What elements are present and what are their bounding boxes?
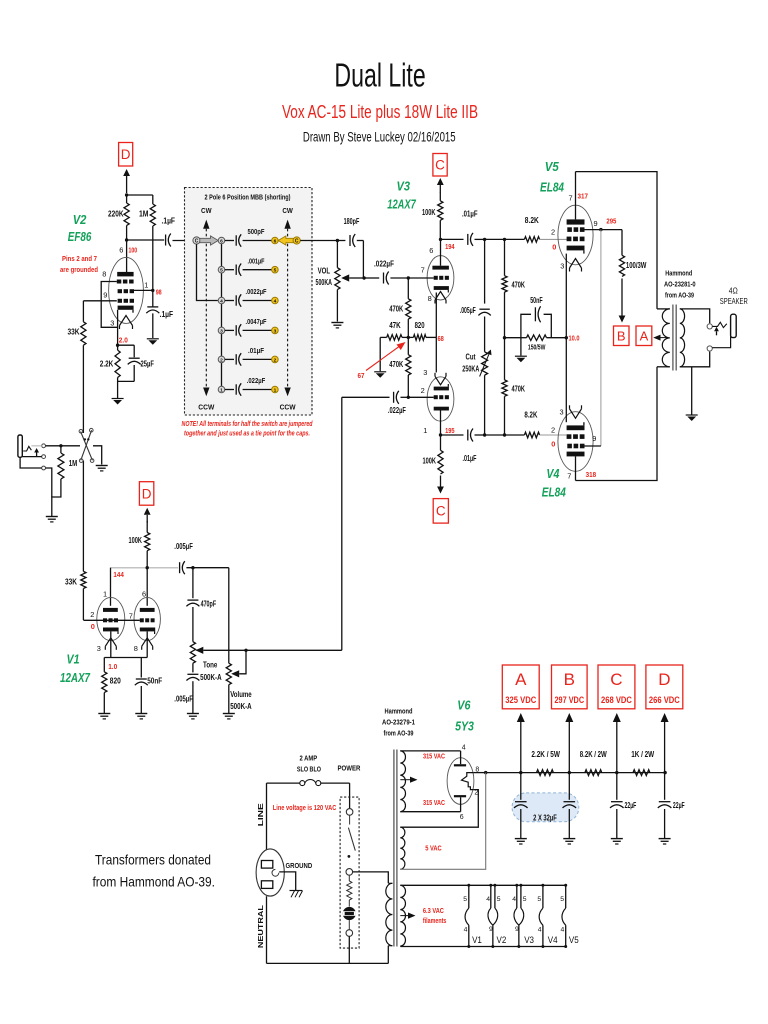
svg-text:5Y3: 5Y3 bbox=[455, 720, 474, 734]
wire HV top lead bbox=[400, 750, 460, 752]
svg-text:4: 4 bbox=[462, 745, 466, 752]
node B voltage box 297 VDC bbox=[552, 665, 588, 709]
wire V3b plate down bbox=[440, 411, 442, 436]
svg-text:V5: V5 bbox=[545, 160, 560, 174]
capacitor 32uF B bbox=[568, 773, 570, 800]
arrow to C box bbox=[439, 185, 441, 193]
svg-text:.0022µF: .0022µF bbox=[246, 287, 267, 296]
svg-text:68: 68 bbox=[438, 334, 444, 343]
svg-text:317: 317 bbox=[578, 192, 589, 201]
wire pin9 grid stub bbox=[83, 300, 116, 302]
wire plate node to coupling cap bbox=[127, 239, 165, 241]
svg-text:NEUTRAL: NEUTRAL bbox=[256, 904, 265, 948]
potentiometer VOL 500KA bbox=[336, 241, 338, 268]
ground 820 bbox=[98, 713, 110, 715]
capacitor 50nF cathode bypass bbox=[521, 314, 531, 337]
V2 grid3 row bbox=[117, 280, 122, 284]
wire 180pF right leg bbox=[362, 241, 364, 279]
svg-text:SLO BLO: SLO BLO bbox=[297, 765, 321, 774]
resistor 470K lower grid leak bbox=[504, 338, 506, 380]
svg-text:CCW: CCW bbox=[198, 405, 214, 412]
svg-text:C: C bbox=[295, 239, 299, 245]
svg-text:2 AMP: 2 AMP bbox=[300, 753, 318, 762]
svg-text:9: 9 bbox=[515, 926, 519, 933]
wire 47K to ground bbox=[380, 336, 387, 338]
svg-text:SPEAKER: SPEAKER bbox=[720, 297, 748, 306]
svg-text:5: 5 bbox=[523, 896, 527, 903]
wire jack sleeve bbox=[20, 457, 42, 468]
svg-text:2: 2 bbox=[551, 228, 555, 237]
svg-text:500K-A: 500K-A bbox=[200, 673, 222, 682]
resistor 470K upper divider bbox=[407, 278, 409, 299]
wire volume bottom bbox=[228, 685, 230, 713]
svg-text:144: 144 bbox=[113, 570, 124, 579]
wire bias node bbox=[505, 337, 521, 339]
capacitor .005uF tone bottom bbox=[192, 663, 194, 672]
svg-text:V3: V3 bbox=[524, 935, 534, 945]
V5 heater bbox=[570, 259, 582, 269]
svg-text:470K: 470K bbox=[389, 359, 404, 369]
capacitor .01uF bottom coupling bbox=[441, 434, 464, 436]
tube V1b envelope bbox=[134, 597, 160, 640]
svg-text:.1µF: .1µF bbox=[162, 217, 176, 226]
svg-text:5: 5 bbox=[537, 896, 541, 903]
svg-text:50nF: 50nF bbox=[530, 296, 543, 305]
jack switch cross contacts bbox=[81, 432, 93, 461]
V4 heater inverted bbox=[570, 409, 582, 419]
svg-text:2 Pole 6 Position MBB (shortin: 2 Pole 6 Position MBB (shorting) bbox=[205, 195, 291, 202]
switch pole A terminal bus bbox=[221, 244, 223, 390]
svg-text:9: 9 bbox=[594, 219, 598, 228]
svg-text:0: 0 bbox=[91, 622, 95, 631]
svg-text:295: 295 bbox=[606, 217, 616, 226]
svg-text:220K: 220K bbox=[108, 209, 124, 219]
svg-text:98: 98 bbox=[156, 288, 162, 297]
V3b plate bar bbox=[434, 407, 449, 411]
wire cathode to ground bbox=[117, 378, 119, 399]
rheostat Cut 250KA bbox=[482, 352, 488, 375]
svg-text:8: 8 bbox=[134, 644, 138, 653]
OT secondary top lead bbox=[680, 309, 710, 323]
svg-text:1.0: 1.0 bbox=[108, 662, 117, 671]
node B supply bbox=[614, 326, 630, 346]
wire cathode bus V1 bbox=[104, 657, 147, 659]
wire 5V bottom lead to B+ node bbox=[400, 773, 485, 870]
thermistor zigzag bbox=[348, 875, 350, 881]
svg-text:.01µF: .01µF bbox=[463, 454, 477, 463]
svg-text:6: 6 bbox=[142, 590, 146, 599]
capacitor .022uF to V3b grid bbox=[342, 396, 390, 398]
wire V1a plate lead bbox=[110, 568, 112, 606]
svg-text:315 VAC: 315 VAC bbox=[423, 752, 445, 761]
svg-text:12AX7: 12AX7 bbox=[60, 671, 91, 685]
svg-text:22µF: 22µF bbox=[625, 801, 637, 810]
input jack tip contact bbox=[23, 446, 31, 451]
svg-text:EL84: EL84 bbox=[542, 486, 566, 500]
wire plate bottom lead bbox=[460, 797, 462, 811]
ground cap D bbox=[659, 838, 671, 840]
arrow to D box bbox=[664, 721, 666, 723]
wire V1b cathode lead bbox=[146, 631, 148, 657]
svg-text:.1µF: .1µF bbox=[160, 310, 174, 319]
wire switch to ground right bbox=[93, 446, 102, 465]
svg-text:A: A bbox=[640, 328, 649, 343]
svg-text:5: 5 bbox=[274, 268, 277, 274]
svg-text:1: 1 bbox=[423, 426, 427, 435]
junction dots B+ rail bbox=[484, 771, 487, 774]
svg-text:.022µF: .022µF bbox=[388, 406, 406, 415]
OT core bbox=[672, 305, 674, 371]
V6 plate bar top bbox=[454, 764, 466, 766]
wire V4 screen stub bbox=[585, 445, 601, 447]
svg-text:D: D bbox=[658, 670, 670, 689]
svg-text:.01µF: .01µF bbox=[462, 210, 478, 219]
OT primary winding bbox=[657, 308, 670, 310]
tube V5 envelope bbox=[558, 205, 593, 265]
V4 grid row bbox=[567, 434, 572, 439]
svg-text:7: 7 bbox=[567, 472, 571, 481]
wire mains top bbox=[267, 782, 300, 784]
switch contact 2 bbox=[346, 869, 353, 876]
svg-text:from AO-39: from AO-39 bbox=[384, 729, 414, 738]
svg-text:are grounded: are grounded bbox=[60, 265, 98, 274]
resistor 820 cathode V1 bbox=[103, 658, 105, 672]
wire V1a cathode lead bbox=[110, 631, 112, 657]
wire node to 1M bbox=[127, 194, 153, 196]
V6 plate bar bottom bbox=[454, 795, 466, 797]
node C voltage box 268 VDC bbox=[598, 665, 635, 709]
svg-text:3: 3 bbox=[560, 408, 564, 417]
svg-text:C: C bbox=[436, 504, 446, 519]
wire tone bus riser bbox=[341, 397, 343, 650]
svg-text:Pins 2 and 7: Pins 2 and 7 bbox=[62, 254, 97, 263]
resistor 8.2K grid stopper V4 bbox=[524, 432, 539, 438]
PT core bbox=[393, 750, 395, 947]
CW arrow right bbox=[284, 220, 290, 229]
V2 grid2 row bbox=[118, 289, 122, 293]
svg-text:Vox AC-15 Lite plus 18W Lite I: Vox AC-15 Lite plus 18W Lite IIB bbox=[282, 101, 478, 122]
svg-text:25µF: 25µF bbox=[141, 359, 155, 369]
potentiometer Volume 500K-A bbox=[226, 663, 231, 685]
svg-text:6: 6 bbox=[274, 239, 277, 245]
switch pole A wiper arrow bbox=[200, 236, 218, 245]
svg-text:V2: V2 bbox=[497, 935, 507, 945]
wire V1b plate lead bbox=[146, 568, 148, 606]
svg-text:2 X 32µF: 2 X 32µF bbox=[533, 814, 557, 823]
switch right terminal 5 (yellow) bbox=[272, 266, 279, 273]
svg-text:from Hammond AO-39.: from Hammond AO-39. bbox=[93, 875, 216, 890]
svg-text:Hammond: Hammond bbox=[385, 707, 413, 716]
node C supply V3 bbox=[433, 154, 447, 177]
svg-text:500KA: 500KA bbox=[316, 278, 333, 287]
resistor 220K plate load bbox=[126, 195, 128, 203]
V2 plate bar bbox=[117, 272, 133, 277]
svg-text:Volume: Volume bbox=[230, 690, 252, 699]
wire V2 cathode lead bbox=[117, 310, 119, 345]
svg-text:V3: V3 bbox=[397, 180, 411, 194]
wire plug ground bbox=[279, 872, 296, 891]
svg-text:9: 9 bbox=[489, 926, 493, 933]
wire shared cathode line bbox=[435, 293, 437, 338]
resistor 470K upper grid leak bbox=[504, 239, 506, 275]
svg-text:Tone: Tone bbox=[203, 661, 218, 670]
volume wiper arrow bbox=[231, 670, 239, 677]
svg-text:.022µF: .022µF bbox=[374, 260, 394, 269]
V1b grid row bbox=[140, 618, 144, 622]
svg-text:AO-23279-1: AO-23279-1 bbox=[382, 718, 415, 727]
V6 cathode bbox=[462, 773, 474, 790]
svg-text:from AO-39: from AO-39 bbox=[665, 291, 694, 300]
svg-text:2.2K: 2.2K bbox=[100, 359, 114, 369]
svg-text:3: 3 bbox=[220, 328, 223, 334]
svg-text:5: 5 bbox=[560, 896, 564, 903]
wire switch to bottom rail bbox=[348, 936, 350, 963]
svg-text:EF86: EF86 bbox=[68, 230, 92, 244]
switch lower terminal bbox=[348, 920, 350, 930]
svg-text:500pF: 500pF bbox=[248, 227, 265, 236]
capacitor .001µF switch row bbox=[225, 269, 234, 271]
wire pin1 to 1M bottom bbox=[134, 289, 153, 291]
svg-text:325 VDC: 325 VDC bbox=[505, 695, 536, 705]
wire D arrow bbox=[126, 176, 128, 193]
wire V2 plate node bbox=[125, 238, 128, 241]
capacitor 470pF treble bbox=[192, 568, 194, 599]
svg-text:470K: 470K bbox=[512, 280, 526, 290]
switch pole A common terminal C bbox=[193, 237, 200, 244]
svg-text:8: 8 bbox=[102, 270, 106, 279]
svg-text:6: 6 bbox=[429, 246, 433, 255]
capacitor .1uF coupling bbox=[165, 235, 167, 246]
svg-text:2.2K / 5W: 2.2K / 5W bbox=[531, 750, 560, 759]
wire screen bus down to V4 bbox=[600, 230, 602, 446]
wire 8.2K to V5 grid bbox=[540, 238, 567, 240]
svg-text:D: D bbox=[121, 147, 131, 162]
svg-text:AO-23281-0: AO-23281-0 bbox=[664, 280, 696, 289]
node D voltage box 266 VDC bbox=[646, 665, 683, 709]
V3b cathode bar bbox=[434, 387, 449, 391]
switch right terminal 6 (yellow) bbox=[272, 237, 279, 244]
heater V3 bbox=[516, 885, 518, 908]
PT 5V winding bbox=[400, 827, 405, 869]
svg-text:.005µF: .005µF bbox=[174, 695, 193, 704]
heater rail top bbox=[400, 884, 565, 886]
svg-text:7: 7 bbox=[569, 194, 573, 203]
svg-text:.005µF: .005µF bbox=[460, 306, 476, 315]
capacitor .01uF top coupling bbox=[441, 238, 464, 240]
svg-text:266 VDC: 266 VDC bbox=[649, 695, 680, 705]
svg-text:B: B bbox=[564, 670, 575, 689]
tube V1a envelope bbox=[97, 597, 125, 640]
ground cathode bias bbox=[520, 338, 522, 356]
wire HV bottom lead bbox=[400, 811, 460, 813]
wire 1M to pin1 node bbox=[152, 226, 154, 290]
capacitor 180pF bright bbox=[337, 240, 345, 242]
node D supply V1 bbox=[139, 482, 153, 506]
svg-text:6: 6 bbox=[119, 246, 123, 255]
wire fuse to switch bbox=[321, 782, 350, 784]
svg-text:33K: 33K bbox=[68, 327, 81, 337]
wire V4 plate to OT bbox=[575, 456, 577, 480]
node C supply bottom bbox=[433, 499, 448, 523]
wire V1 grid bus bbox=[83, 619, 139, 621]
svg-text:7: 7 bbox=[421, 266, 425, 275]
svg-text:194: 194 bbox=[445, 242, 455, 251]
svg-text:268 VDC: 268 VDC bbox=[601, 695, 632, 705]
wire primary bottom to rail bbox=[387, 946, 389, 964]
V2 grid1 row bbox=[118, 299, 122, 303]
capacitor 500pF switch row bbox=[225, 240, 234, 242]
heater V1 bbox=[468, 885, 470, 908]
resistor 2.2K/5W filter bbox=[537, 770, 554, 776]
svg-text:4: 4 bbox=[464, 927, 468, 934]
svg-text:0: 0 bbox=[551, 440, 555, 449]
capacitor 25uF cathode bypass bbox=[118, 344, 135, 346]
speaker jack body bbox=[731, 314, 737, 337]
capacitor 50nF cathode bypass V1 bbox=[140, 658, 142, 678]
svg-text:8.2K: 8.2K bbox=[524, 410, 538, 420]
svg-text:6: 6 bbox=[460, 814, 464, 821]
svg-text:5: 5 bbox=[463, 896, 467, 903]
ground OT secondary bbox=[691, 367, 693, 415]
svg-text:4: 4 bbox=[274, 299, 277, 305]
wire V5 screen to node bbox=[585, 229, 601, 231]
node D supply top-left bbox=[119, 143, 133, 167]
OT center tap arrow to A bbox=[661, 337, 669, 339]
wire bottom coupling to 8.2K bbox=[485, 434, 505, 436]
resistor 1M input load bbox=[60, 446, 62, 453]
mains plug bbox=[256, 849, 284, 896]
svg-text:0: 0 bbox=[552, 243, 556, 252]
svg-text:3: 3 bbox=[97, 644, 101, 653]
CCW arrow right bbox=[284, 388, 290, 397]
wire cut to bottom wire bbox=[484, 375, 486, 435]
svg-text:CW: CW bbox=[201, 208, 212, 215]
V1b cathode bar bbox=[140, 628, 155, 632]
svg-text:22µF: 22µF bbox=[673, 801, 685, 810]
wire pin8 tie to cathode bbox=[101, 282, 117, 328]
svg-text:Hammond: Hammond bbox=[665, 269, 692, 278]
wire mains bottom bbox=[267, 962, 389, 964]
svg-text:470K: 470K bbox=[512, 384, 526, 394]
V1b plate bar bbox=[140, 608, 155, 612]
resistor 1K/2W filter bbox=[633, 770, 650, 776]
OT secondary winding bbox=[680, 309, 685, 367]
V5 screen row bbox=[567, 227, 572, 232]
svg-text:5: 5 bbox=[220, 268, 223, 274]
switch blade bbox=[348, 828, 355, 851]
potentiometer Tone 500K-A bbox=[190, 642, 195, 664]
V3b grid row bbox=[434, 395, 438, 399]
wire V3a grid stub bbox=[407, 276, 410, 279]
ground jack switch bbox=[96, 465, 108, 467]
svg-text:V2: V2 bbox=[73, 213, 87, 227]
svg-text:500K-A: 500K-A bbox=[230, 702, 252, 711]
V1a plate bar bbox=[103, 608, 118, 612]
V4 cathode bar bbox=[567, 425, 585, 430]
input jack body bbox=[18, 435, 22, 457]
svg-text:4Ω: 4Ω bbox=[729, 287, 738, 296]
svg-text:EL84: EL84 bbox=[540, 180, 564, 194]
svg-text:100/3W: 100/3W bbox=[626, 261, 647, 270]
highlight 2x32uF dual cap bbox=[512, 793, 579, 822]
V3a cathode bar bbox=[434, 286, 449, 290]
svg-text:8.2K / 2W: 8.2K / 2W bbox=[580, 750, 607, 759]
resistor 8.2K/2W filter bbox=[585, 770, 602, 776]
svg-text:B: B bbox=[617, 328, 626, 343]
resistor 8.2K grid stopper V5 bbox=[524, 237, 539, 243]
svg-text:V5: V5 bbox=[569, 935, 579, 945]
svg-text:3: 3 bbox=[423, 368, 427, 377]
tube V6 envelope bbox=[447, 758, 474, 805]
svg-text:470K: 470K bbox=[389, 304, 404, 314]
svg-text:2: 2 bbox=[220, 357, 223, 363]
switch pole B common terminal C bbox=[293, 237, 300, 244]
svg-text:.022µF: .022µF bbox=[247, 376, 266, 385]
resistor 470K lower divider bbox=[407, 337, 409, 354]
ground VOL bbox=[331, 322, 343, 324]
wire LINE down bbox=[266, 783, 268, 849]
arrow to B box bbox=[621, 279, 623, 316]
switch right terminal 4 (yellow) bbox=[272, 297, 279, 304]
svg-text:8: 8 bbox=[428, 294, 432, 303]
capacitor 32uF A bbox=[520, 773, 522, 800]
ground jack sleeve bbox=[46, 516, 58, 518]
svg-text:Dual Lite: Dual Lite bbox=[334, 57, 425, 94]
svg-text:POWER: POWER bbox=[338, 763, 362, 772]
V3a grid row bbox=[434, 276, 438, 280]
capacitor 22uF D bbox=[664, 773, 666, 800]
V2 cathode bar bbox=[118, 306, 134, 310]
heater V5 bbox=[565, 885, 567, 908]
tube V3a envelope bbox=[427, 256, 454, 300]
svg-text:180pF: 180pF bbox=[344, 217, 360, 226]
svg-text:Transformers donated: Transformers donated bbox=[95, 853, 211, 868]
ground screen bypass bbox=[147, 338, 159, 340]
svg-text:315 VAC: 315 VAC bbox=[423, 798, 445, 807]
V4 cathode wire bbox=[565, 338, 567, 423]
svg-text:250KA: 250KA bbox=[462, 365, 479, 374]
svg-text:1K / 2W: 1K / 2W bbox=[631, 750, 655, 759]
arrow to B box bbox=[568, 721, 570, 723]
wire top coupling to grid network bbox=[485, 238, 505, 240]
V5 cathode wire bbox=[565, 254, 567, 338]
svg-text:2.0: 2.0 bbox=[119, 336, 128, 345]
V5 cathode bar bbox=[567, 246, 585, 251]
svg-text:V4: V4 bbox=[546, 467, 559, 481]
svg-text:195: 195 bbox=[445, 426, 455, 435]
svg-text:150/5W: 150/5W bbox=[528, 343, 546, 352]
svg-text:820: 820 bbox=[110, 676, 121, 686]
tube V2 EF86 envelope bbox=[109, 257, 144, 323]
svg-text:297 VDC: 297 VDC bbox=[555, 695, 585, 705]
switch left terminal 5 bbox=[218, 266, 225, 273]
wire 1M bottom to ground bbox=[52, 479, 61, 516]
V4 plate bar bbox=[567, 452, 585, 457]
resistor 820 tail bbox=[413, 335, 426, 341]
resistor 2.2K cathode bbox=[117, 345, 119, 350]
svg-text:9: 9 bbox=[592, 434, 596, 443]
svg-text:2: 2 bbox=[421, 386, 425, 395]
svg-text:.01µF: .01µF bbox=[248, 346, 264, 355]
wire switch contact2 to primary bbox=[353, 872, 389, 883]
svg-text:2: 2 bbox=[274, 357, 277, 363]
svg-text:2: 2 bbox=[551, 426, 555, 435]
svg-text:filaments: filaments bbox=[423, 916, 447, 925]
svg-text:100K: 100K bbox=[422, 207, 436, 217]
svg-text:4: 4 bbox=[538, 927, 542, 934]
resistor 1M grid2 feed bbox=[152, 195, 154, 204]
PT HV center tap arrow bbox=[400, 779, 410, 781]
